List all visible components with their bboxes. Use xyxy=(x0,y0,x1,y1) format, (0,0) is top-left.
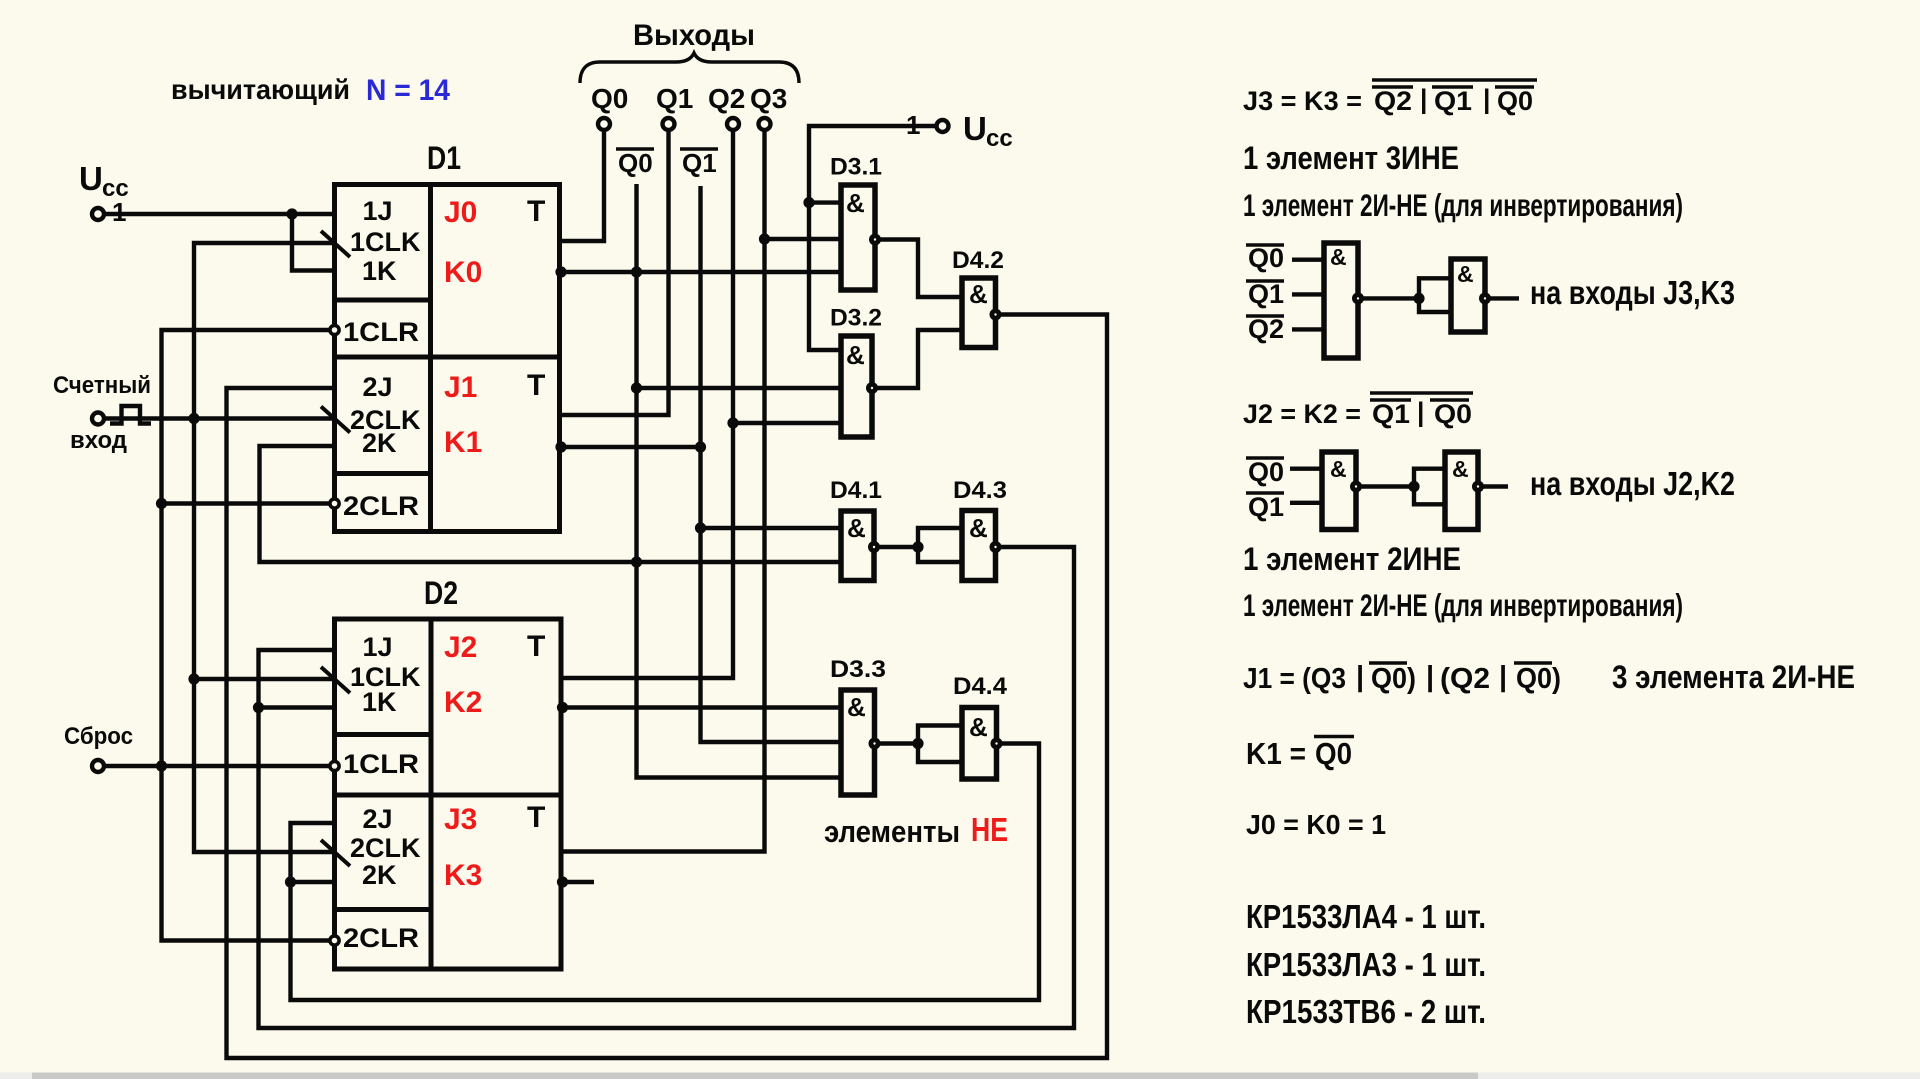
wire J2 rail to D2 1K xyxy=(259,705,335,709)
svg-text:&: & xyxy=(1457,261,1474,287)
D1 pin labels xyxy=(343,196,421,521)
gate D4.2 box xyxy=(962,278,996,348)
wire inverter tied inputs J2K2 xyxy=(1414,469,1445,505)
output bubble D3.1 xyxy=(869,234,881,246)
svg-text:Q0: Q0 xyxy=(1497,86,1533,116)
svg-text:|: | xyxy=(1483,84,1490,114)
wire Q3 tap to D3.1 input xyxy=(765,237,842,241)
svg-text:1CLR: 1CLR xyxy=(343,317,419,347)
bottom scrollbar track xyxy=(0,1073,1920,1079)
svg-text:Q0): Q0) xyxy=(1516,663,1561,695)
svg-text:Счетный: Счетный xyxy=(53,372,151,399)
svg-text:&: & xyxy=(847,692,866,722)
wire Q0-bar tap to D3.2 input xyxy=(637,386,842,390)
bubble D2 1CLR xyxy=(330,761,339,770)
svg-text:Q1: Q1 xyxy=(1248,279,1284,309)
svg-text:&: & xyxy=(1330,456,1347,482)
svg-text:&: & xyxy=(847,513,866,543)
gate inverter for J2K2 xyxy=(1445,452,1478,530)
svg-text:&: & xyxy=(846,340,865,370)
terminal Ucc right xyxy=(937,120,949,132)
svg-text:D1: D1 xyxy=(427,140,461,176)
svg-text:Q2: Q2 xyxy=(1248,314,1284,344)
wire Q1bar input J3K3 xyxy=(1292,292,1324,296)
D2 pin labels xyxy=(343,632,421,953)
junction Q2 / D3.2 line xyxy=(727,417,738,428)
output bubble inverter J3K3 xyxy=(1479,292,1491,304)
svg-text:Q0: Q0 xyxy=(1248,457,1284,487)
bubble D1 2CLR xyxy=(330,499,339,508)
junction clock rail / D2 1CLK xyxy=(188,673,199,684)
svg-text:1J: 1J xyxy=(363,196,393,226)
svg-text:Q1: Q1 xyxy=(1434,86,1472,116)
wire Q1-bar vertical drop to D3.3 input xyxy=(701,186,842,742)
D1 function labels xyxy=(444,195,545,459)
svg-text:&: & xyxy=(969,513,988,543)
svg-text:элементы: элементы xyxy=(824,814,960,849)
svg-text:Q0: Q0 xyxy=(1248,243,1284,273)
right column: J3K3 gate group xyxy=(1322,243,1485,530)
gate designator labels xyxy=(830,154,1007,701)
wire J3 rail to D2 2K xyxy=(291,880,335,884)
junction D4.4 tied-input split xyxy=(912,738,923,749)
svg-text:D4.2: D4.2 xyxy=(952,247,1004,274)
wire J2 rail x=258.5: D2 1J from bottom bus xyxy=(259,547,1075,1028)
gate NAND3 for J3K3 xyxy=(1324,243,1358,358)
svg-text:3 элемента 2И-НЕ: 3 элемента 2И-НЕ xyxy=(1612,659,1855,695)
junction Q1-bar / K1 output xyxy=(695,441,706,452)
dynamic clock edge marks xyxy=(321,231,350,866)
svg-text:T: T xyxy=(527,195,545,228)
svg-text:Q0: Q0 xyxy=(618,148,653,178)
svg-text:НЕ: НЕ xyxy=(971,811,1008,848)
wire D1 Q1 output up to Q1 terminal xyxy=(560,130,669,415)
formula J3 = K3 xyxy=(1243,84,1533,116)
junction J2 rail / D2 1K xyxy=(253,702,264,713)
svg-text:|: | xyxy=(1417,397,1424,427)
gate D3.3 box xyxy=(841,690,875,795)
overline Q2 xyxy=(1372,85,1413,88)
overline Q0 second J1 xyxy=(1514,661,1552,664)
wire Ucc branch down to D1 1K xyxy=(292,214,335,271)
wire CLR rail to D1 2CLR xyxy=(162,501,331,505)
svg-text:Q0): Q0) xyxy=(1371,663,1416,695)
clk wedge D1 2CLK xyxy=(321,407,350,433)
svg-text:&: & xyxy=(1452,456,1469,482)
clk wedge D2 1CLK xyxy=(321,667,350,693)
svg-text:J1 = (Q3: J1 = (Q3 xyxy=(1243,663,1346,695)
svg-text:N = 14: N = 14 xyxy=(366,74,450,107)
wire Q2bar input J3K3 xyxy=(1292,327,1324,331)
svg-text:D4.4: D4.4 xyxy=(953,673,1007,700)
wire D2 Q2-bar output to D3.3 input xyxy=(561,705,841,709)
svg-text:K2: K2 xyxy=(444,686,482,719)
wire D2 Q2 output up to Q2 terminal xyxy=(561,130,733,678)
svg-text:U: U xyxy=(79,160,103,197)
svg-text:Q1: Q1 xyxy=(1372,399,1410,429)
wire Ucc input to D1 1J xyxy=(104,212,335,216)
wire inverter output J2K2 xyxy=(1478,484,1508,488)
output bubble D4.4 xyxy=(991,738,1003,750)
svg-text:1: 1 xyxy=(906,110,920,140)
bottom scrollbar thumb xyxy=(32,1073,1478,1079)
svg-text:на входы J3,K3: на входы J3,K3 xyxy=(1530,274,1735,311)
terminal Sbros xyxy=(92,760,104,772)
wire inverter output J3K3 xyxy=(1485,296,1519,300)
junction Ucc rail / D3.1 input xyxy=(803,197,814,208)
svg-text:J2 = K2 =: J2 = K2 = xyxy=(1243,399,1361,429)
wire NAND3 out to inverter J3K3 xyxy=(1358,296,1419,300)
gate D4.3 box xyxy=(962,511,996,581)
formula J1 xyxy=(1243,661,1561,695)
junction Q0-bar / K0 line xyxy=(631,266,642,277)
terminal Q0 xyxy=(598,118,610,130)
overline Q1 xyxy=(1432,85,1473,88)
wire D1 K0 output (Q0-bar line) to D3.1 input xyxy=(560,270,842,274)
svg-text:Q0: Q0 xyxy=(591,83,628,114)
svg-text:1 элемент 2ИНЕ: 1 элемент 2ИНЕ xyxy=(1243,541,1461,577)
svg-text:&: & xyxy=(1330,244,1347,270)
svg-text:2K: 2K xyxy=(362,860,397,890)
svg-text:вход: вход xyxy=(70,427,127,454)
overline Q0 first J1 xyxy=(1369,661,1407,664)
svg-text:D2: D2 xyxy=(424,575,458,611)
svg-text:КР1533ТВ6 - 2 шт.: КР1533ТВ6 - 2 шт. xyxy=(1246,993,1486,1030)
svg-text:D3.2: D3.2 xyxy=(830,305,882,332)
wire D1 K1 output to Q1-bar vertical xyxy=(560,445,701,449)
svg-text:U: U xyxy=(963,110,987,147)
svg-text:2J: 2J xyxy=(363,804,393,834)
svg-text:Q1: Q1 xyxy=(682,148,717,178)
svg-text:Q0: Q0 xyxy=(1315,736,1352,771)
flip-flop D2 box xyxy=(335,619,562,969)
svg-text:2CLR: 2CLR xyxy=(343,491,419,521)
svg-text:D4.1: D4.1 xyxy=(830,477,882,504)
terminal Q2 xyxy=(727,118,739,130)
flip-flop D1 box xyxy=(335,185,560,532)
wire Q2 tap to D3.2 input xyxy=(733,421,841,425)
junction Q1-bar / D4.1 line xyxy=(695,522,706,533)
D2 function labels xyxy=(444,630,545,892)
clk wedge D1 1CLK xyxy=(321,231,350,257)
svg-text:Выходы: Выходы xyxy=(633,19,755,52)
output bubble D3.2 xyxy=(866,382,878,394)
svg-text:J3: J3 xyxy=(444,803,477,836)
svg-text:1 элемент 3ИНЕ: 1 элемент 3ИНЕ xyxy=(1243,140,1459,176)
svg-text:K1 =: K1 = xyxy=(1246,736,1306,771)
terminal Ucc left xyxy=(92,208,104,220)
svg-text:1CLK: 1CLK xyxy=(350,227,421,257)
junction D2 K3 output dot xyxy=(557,876,568,887)
output bubble D3.3 xyxy=(869,738,881,750)
wire Q0bar input J3K3 xyxy=(1292,258,1324,262)
wire Q1-bar tap to D4.1 input xyxy=(701,526,842,530)
output bubble NAND3 J3K3 xyxy=(1352,292,1364,304)
svg-text:2J: 2J xyxy=(363,372,393,402)
gate D3.1 box xyxy=(841,185,875,290)
wire Q0bar input J2K2 xyxy=(1290,467,1322,471)
terminal Q1 xyxy=(663,118,675,130)
gate D4.4 box xyxy=(962,708,997,780)
brace over outputs xyxy=(580,53,799,83)
svg-text:Q2: Q2 xyxy=(1374,86,1412,116)
wire D3.3 output to D4.4 tied inputs xyxy=(918,726,962,763)
wire D4.1 output to D4.3 tied inputs xyxy=(918,528,962,562)
gate output bubbles (ring dots) xyxy=(866,234,1003,750)
junction Ucc/1K branch xyxy=(286,208,297,219)
wire D3.1 output to D4.2 input 1 xyxy=(875,240,962,298)
svg-text:|: | xyxy=(1356,661,1364,693)
svg-text:2CLR: 2CLR xyxy=(343,923,419,953)
svg-text:K0: K0 xyxy=(444,256,482,289)
svg-text:J0: J0 xyxy=(444,196,477,229)
wire NAND2 out to inverter J2K2 xyxy=(1356,484,1414,488)
svg-text:T: T xyxy=(527,801,545,834)
junction Q0-bar / K1 feed line xyxy=(631,556,642,567)
overall overline J2K2 xyxy=(1370,391,1473,394)
CLR inversion bubbles on D1/D2 xyxy=(330,325,339,945)
svg-text:J1: J1 xyxy=(444,371,477,404)
output bubble D4.2 xyxy=(990,309,1002,321)
svg-text:Q1: Q1 xyxy=(1248,492,1284,522)
svg-text:J2: J2 xyxy=(444,631,477,664)
svg-text:J3 = K3 =: J3 = K3 = xyxy=(1243,86,1362,116)
junction CLR rail / Sbros xyxy=(156,760,167,771)
junction D1 K1 output dot xyxy=(555,441,566,452)
output bubble D4.3 xyxy=(990,541,1002,553)
svg-text:2K: 2K xyxy=(362,428,397,458)
junction CLR rail / D1 2CLR xyxy=(156,498,167,509)
bubble D2 2CLR xyxy=(330,936,339,945)
svg-text:K3: K3 xyxy=(444,859,482,892)
gate D3.2 box xyxy=(841,336,872,437)
junction inverter input split J2K2 xyxy=(1408,481,1419,492)
svg-text:T: T xyxy=(527,630,545,663)
gate inverter for J3K3 xyxy=(1451,259,1485,332)
terminal Q3 xyxy=(759,118,771,130)
output bubble inverter J2K2 xyxy=(1472,481,1484,493)
svg-text:D3.1: D3.1 xyxy=(830,154,882,181)
svg-text:1: 1 xyxy=(112,197,126,227)
overline Q0 K1 xyxy=(1314,735,1354,738)
svg-text:|: | xyxy=(1499,661,1507,693)
svg-text:вычитающий: вычитающий xyxy=(171,74,350,105)
wire K1 rail x=259.5: D1 2K fed from Q0-bar line xyxy=(260,446,842,562)
svg-text:&: & xyxy=(846,188,865,218)
svg-text:(Q2: (Q2 xyxy=(1440,663,1490,695)
input terminals (open circles) xyxy=(92,118,949,772)
gate D4.1 box xyxy=(841,511,874,581)
terminal counting input xyxy=(92,413,104,425)
svg-text:Сброс: Сброс xyxy=(64,723,133,750)
formula J2 = K2 xyxy=(1243,397,1472,429)
wire inverter tied inputs J3K3 xyxy=(1419,278,1451,312)
clk wedge D2 2CLK xyxy=(321,840,350,866)
svg-text:K1: K1 xyxy=(444,426,482,459)
junction clock rail / counting input xyxy=(188,413,199,424)
svg-text:Q1: Q1 xyxy=(656,83,693,114)
wire D2 Q3 output up to Q3 terminal xyxy=(561,130,765,852)
svg-text:&: & xyxy=(969,712,988,742)
overline Q0 xyxy=(1495,85,1534,88)
svg-text:&: & xyxy=(969,279,988,309)
junction Q3 / D3.1 line xyxy=(759,233,770,244)
svg-text:КР1533ЛА4 - 1 шт.: КР1533ЛА4 - 1 шт. xyxy=(1246,898,1486,935)
svg-text:Q2: Q2 xyxy=(708,83,745,114)
svg-text:|: | xyxy=(1420,84,1427,114)
svg-text:|: | xyxy=(1426,661,1434,693)
junction D2 Q2-bar output dot xyxy=(557,702,568,713)
svg-text:2CLK: 2CLK xyxy=(350,833,421,863)
svg-text:cc: cc xyxy=(986,125,1013,152)
gate NAND2 for J2K2 xyxy=(1322,452,1356,530)
svg-text:Q3: Q3 xyxy=(750,83,787,114)
wire Ucc right terminal to rail x=809 xyxy=(809,126,936,350)
junction J3 rail / D2 2K xyxy=(285,876,296,887)
wire clock rail to D2 1CLK xyxy=(194,677,335,681)
junction D4.3 tied-input split xyxy=(912,541,923,552)
wire clock rail x=194 (1CLK D1 to 2CLK D2) xyxy=(194,243,335,852)
wire Q1bar input J2K2 xyxy=(1290,501,1322,505)
svg-text:КР1533ЛА3 - 1 шт.: КР1533ЛА3 - 1 шт. xyxy=(1246,946,1486,983)
svg-text:J0 = K0 = 1: J0 = K0 = 1 xyxy=(1246,809,1386,840)
junction Q0-bar / D3.2 line xyxy=(631,382,642,393)
svg-text:1K: 1K xyxy=(362,256,397,286)
svg-text:1CLR: 1CLR xyxy=(343,749,419,779)
wire D2 K3 output stub xyxy=(561,880,594,884)
wire J1 rail x=226.5 from D1 2J to bottom bus xyxy=(227,315,1108,1059)
overall overline J3K3 xyxy=(1372,78,1537,81)
svg-text:на входы J2,K2: на входы J2,K2 xyxy=(1530,465,1735,502)
overline Q0 J2 xyxy=(1430,398,1469,401)
svg-text:D3.3: D3.3 xyxy=(830,656,886,683)
svg-text:D4.3: D4.3 xyxy=(953,477,1007,504)
wire counting input to D1 2CLK xyxy=(104,416,335,420)
wire J3 rail x=290.5: D2 2J from bottom bus xyxy=(291,744,1040,1001)
output bubble NAND2 J2K2 xyxy=(1350,481,1362,493)
bubble D1 1CLR xyxy=(330,325,339,334)
overline Q1 J2 xyxy=(1370,398,1411,401)
svg-text:1K: 1K xyxy=(362,687,397,717)
svg-text:1 элемент 2И-НЕ (для инвертиро: 1 элемент 2И-НЕ (для инвертирования) xyxy=(1243,187,1683,223)
wire CLR rail x=161.5 (D1 1CLR to D2 2CLR) xyxy=(162,330,331,941)
wire D3.2 output to D4.2 input 2 xyxy=(872,330,962,388)
junction D1 K0 output dot xyxy=(555,266,566,277)
output bubble D4.1 xyxy=(868,541,880,553)
pulse symbol on counting input xyxy=(110,406,151,424)
junction inverter input split J3K3 xyxy=(1413,293,1424,304)
ampersand labels in gates xyxy=(846,188,988,742)
svg-text:1J: 1J xyxy=(363,632,393,662)
wire D1 Q0 output up to Q0 terminal xyxy=(560,130,605,241)
wire Ucc rail to D3.1 input xyxy=(809,200,841,204)
svg-text:Q0: Q0 xyxy=(1434,399,1472,429)
svg-text:1 элемент 2И-НЕ (для инвертиро: 1 элемент 2И-НЕ (для инвертирования) xyxy=(1243,587,1683,623)
svg-text:T: T xyxy=(527,369,545,402)
wire Q0-bar vertical drop to D3.3 input xyxy=(637,184,842,778)
wire Sbros input to D2 1CLR xyxy=(104,764,330,768)
